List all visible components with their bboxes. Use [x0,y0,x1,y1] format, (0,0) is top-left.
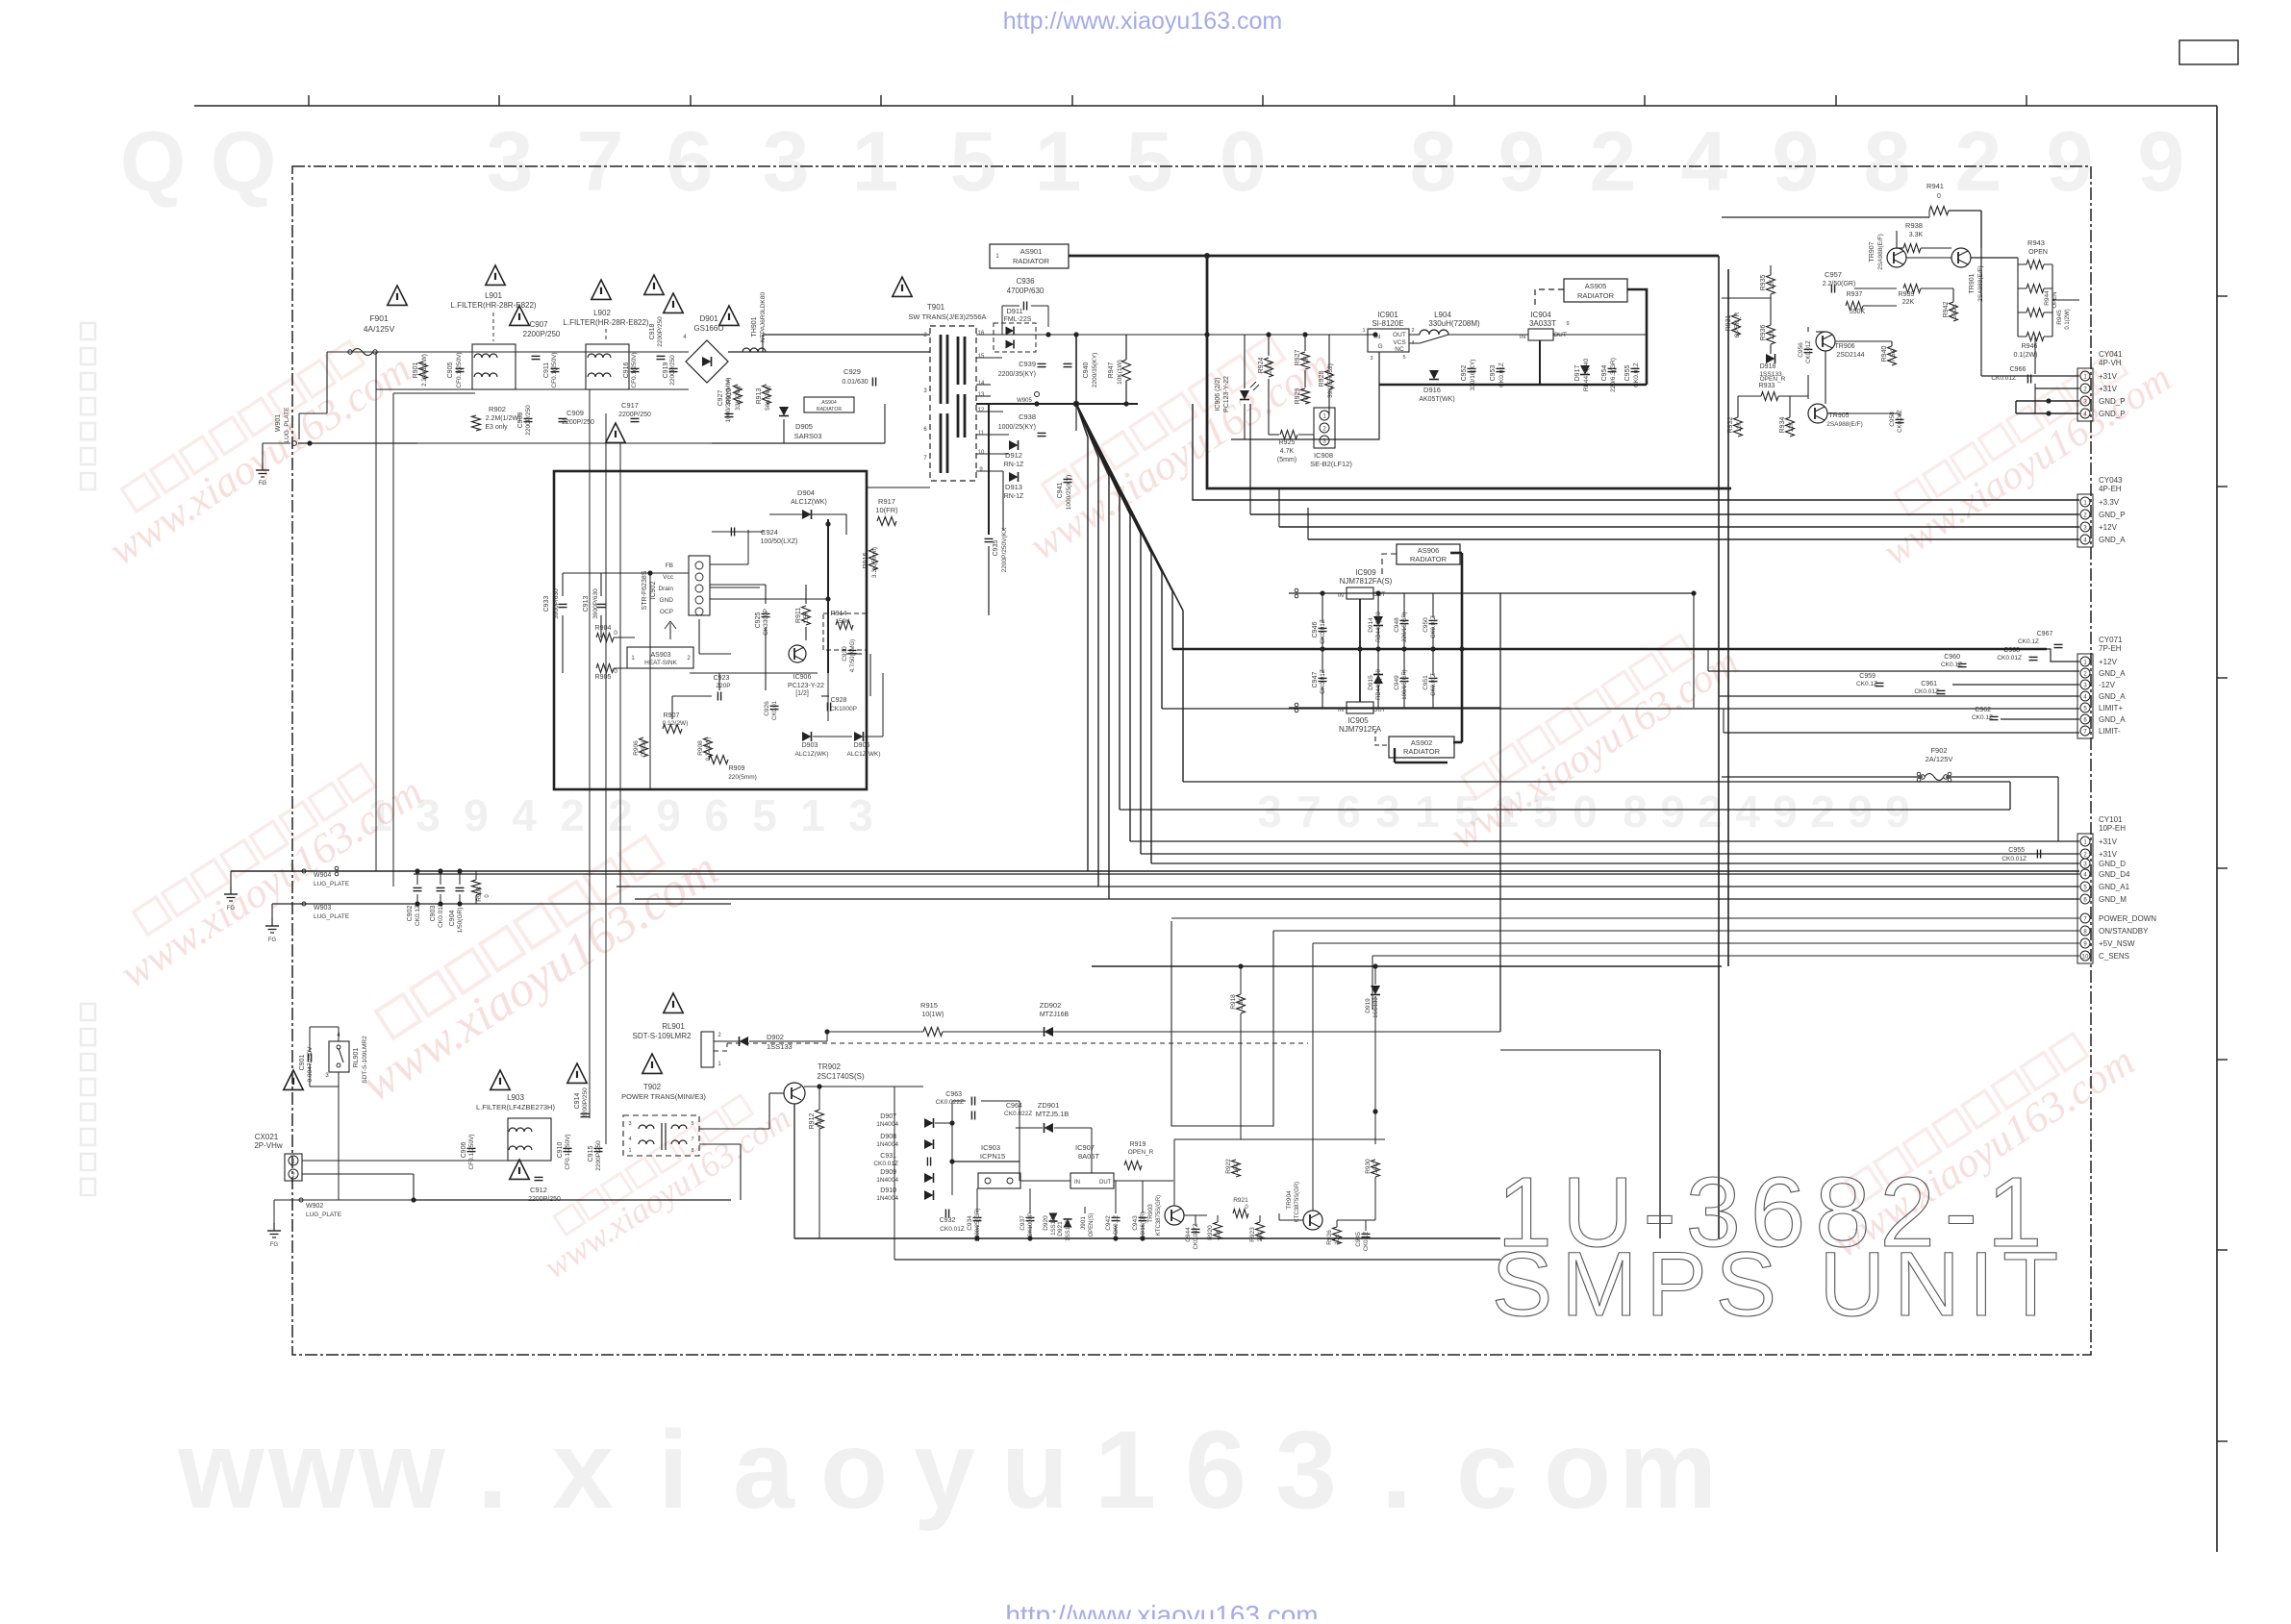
svg-text:330uH(7208M): 330uH(7208M) [1428,319,1480,328]
svg-text:3A033T: 3A033T [1529,319,1556,328]
svg-text:GND_D4: GND_D4 [2099,870,2130,879]
wire output horizontal bus [1120,709,2079,863]
svg-text:R947: R947 [1108,362,1115,379]
transistor Q901 (controller) [789,645,806,662]
svg-text:CK0.1Z: CK0.1Z [1856,681,1877,687]
capacitor C946 [1312,619,1327,644]
svg-text:C902: C902 [407,906,414,922]
resistor R925 [1277,431,1297,464]
inductor L902 line filter [563,309,649,389]
resistor R901 [413,354,428,387]
wire controller internals [563,519,883,789]
svg-text:GND_D: GND_D [2099,860,2126,868]
svg-text:R940: R940 [1881,346,1888,362]
svg-text:10K: 10K [1216,1230,1221,1240]
svg-text:C912: C912 [530,1186,547,1194]
svg-text:OPEN: OPEN [2028,249,2048,256]
svg-text:C955: C955 [2008,847,2025,854]
svg-text:R928: R928 [1319,371,1325,387]
capacitor C964 [971,1103,1032,1120]
svg-text:1N4004: 1N4004 [876,1121,898,1128]
svg-text:POWER TRANS(MINI/E3): POWER TRANS(MINI/E3) [621,1092,706,1101]
transistor TR906 [1816,332,1865,359]
svg-text:ICPN15: ICPN15 [980,1152,1005,1161]
diode D905 SARS03 [779,407,821,440]
svg-text:D919: D919 [1365,998,1372,1013]
wire D904 link [712,514,846,535]
capacitor C901 [299,1046,314,1083]
svg-text:C945: C945 [1355,1232,1362,1247]
svg-text:2200P/250: 2200P/250 [595,1140,602,1171]
capacitor C917 [618,401,651,422]
svg-text:NJM7812FA(S): NJM7812FA(S) [1340,577,1393,586]
svg-text:CK0.1Z: CK0.1Z [1364,1231,1370,1251]
IC903 ICPN15 [978,1143,1020,1188]
svg-text:FG: FG [268,937,277,943]
svg-text:C903: C903 [430,906,437,922]
svg-text:RB441Q-40: RB441Q-40 [1583,358,1590,391]
svg-text:D906: D906 [854,742,870,749]
transistor TR902 [784,1062,865,1104]
svg-text:C908: C908 [517,412,524,429]
resistor R931 [1725,312,1741,337]
svg-text:IC906 (2/2): IC906 (2/2) [1215,377,1221,411]
wire W903 rail [272,904,731,918]
capacitor C960 [1941,654,1967,668]
svg-text:D902: D902 [767,1033,784,1041]
svg-text:IC907: IC907 [1075,1143,1095,1152]
capacitor C926 [764,700,779,720]
wire AC live rail [299,352,689,439]
svg-text:10K: 10K [1373,1163,1379,1174]
svg-text:W903: W903 [314,905,331,912]
svg-text:LIMIT-: LIMIT- [2099,727,2121,736]
svg-text:C936: C936 [1016,277,1035,286]
svg-text:D915: D915 [1368,675,1374,690]
svg-text:4P-VH: 4P-VH [2099,359,2122,367]
diode D919 [1365,986,1380,1018]
warning triangle (L901) [486,265,505,285]
svg-text:CF0.1(250V): CF0.1(250V) [565,1134,571,1169]
svg-text:R911: R911 [795,608,802,623]
jumper J901 [1080,1207,1095,1237]
connector CY043 4P-EH [2077,476,2126,547]
capacitor C955b [2001,847,2040,862]
capacitor C962 [1972,707,1999,721]
wire secondary vertical bus [1088,437,1183,899]
svg-text:SMPS UNIT: SMPS UNIT [1492,1234,2067,1336]
transistor TR904 [1286,1182,1322,1230]
svg-text:220(5mm): 220(5mm) [728,774,757,781]
svg-text:c: c [1456,1409,1518,1532]
svg-text:o: o [820,1409,888,1532]
heatsink AS903 [627,647,693,668]
capacitor C952 [1461,360,1476,391]
svg-text:R912: R912 [809,1113,816,1130]
capacitor C930 [842,639,857,672]
wire relay control [714,1041,1308,1051]
warning triangle (D901) [664,293,683,312]
resistor R914 (dashed box) [823,611,867,650]
svg-text:2SA988(E/F): 2SA988(E/F) [1877,234,1884,270]
capacitor C905 [447,352,465,387]
resistor R942 [1943,302,1958,321]
capacitor C948 [1394,612,1409,641]
svg-text:o: o [1544,1409,1611,1532]
svg-text:1000/25(KY): 1000/25(KY) [998,424,1036,431]
svg-text:8: 8 [1864,113,1911,209]
svg-text:10P-EH: 10P-EH [2099,824,2126,833]
diode D910 [876,1187,933,1202]
resistor R941 [1926,182,1949,215]
resistor R916 [863,547,878,578]
svg-text:R938: R938 [1905,221,1923,230]
warning triangle (C901) [284,1070,303,1089]
svg-text:GND_A: GND_A [2099,692,2126,701]
svg-text:CY101: CY101 [2099,815,2123,824]
svg-text:10(FR): 10(FR) [875,506,898,514]
svg-text:47K: 47K [817,1117,823,1129]
capacitor C924 [731,528,797,546]
svg-text:2200P/250: 2200P/250 [582,1087,589,1118]
svg-text:[1/2]: [1/2] [795,690,809,697]
svg-text:R909: R909 [729,765,745,772]
resistor R926 [1326,1227,1342,1245]
svg-text:R927: R927 [1295,350,1301,366]
wire relay wires [310,971,339,1200]
svg-text:9: 9 [1566,321,1569,327]
svg-text:+31V: +31V [2099,372,2118,381]
svg-text:1: 1 [1035,113,1082,209]
svg-text:4P-EH: 4P-EH [2099,485,2122,493]
svg-text:SDT-S-109LMR2: SDT-S-109LMR2 [633,1032,692,1040]
svg-text:R922: R922 [1225,1159,1232,1174]
svg-text:OPEN: OPEN [642,740,647,757]
capacitor C966 [1991,366,2030,384]
svg-text:LUG_PLATE: LUG_PLATE [306,1212,342,1218]
svg-text:7: 7 [691,1137,693,1142]
svg-text:C952: C952 [1461,365,1468,382]
svg-text:2.2M(1/2W): 2.2M(1/2W) [421,354,428,387]
svg-text:+12V: +12V [2099,523,2118,532]
capacitor C903 [430,887,445,927]
capacitor C949 [1394,669,1409,699]
diode D917 [1574,358,1590,391]
capacitor C912 [528,1177,561,1203]
svg-text:2200P/250: 2200P/250 [525,405,532,436]
node W901 lug plate [275,407,296,446]
svg-text:C932: C932 [940,1217,956,1224]
svg-text:2: 2 [560,790,585,840]
svg-text:.: . [1381,1409,1412,1532]
connector CY041 4P-VH [2077,350,2126,421]
svg-text:R908: R908 [697,740,704,756]
svg-text:LUG_PLATE: LUG_PLATE [314,881,350,887]
svg-text:C940: C940 [1083,362,1090,379]
svg-text:L.FILTER(HR-28R-E822): L.FILTER(HR-28R-E822) [450,301,537,310]
svg-text:D918: D918 [1760,363,1776,370]
svg-text:3: 3 [1370,356,1372,362]
wire standby output rails [794,1101,1500,1260]
svg-text:GND: GND [660,597,674,604]
svg-text:2: 2 [1411,328,1414,334]
svg-text:ALC1Z(WK): ALC1Z(WK) [791,499,827,506]
transformer T901 windings [923,331,985,473]
diode D915 [1368,668,1383,699]
svg-text:R902: R902 [489,405,506,413]
svg-text:1N4004: 1N4004 [876,1195,898,1202]
svg-text:3900P/630: 3900P/630 [592,588,599,619]
diode D907 [876,1113,933,1128]
svg-text:C962: C962 [1975,707,1991,713]
capacitor C914 [574,1087,590,1118]
svg-text:AS902: AS902 [1411,738,1433,747]
resistor R947 [1108,360,1131,385]
svg-text:C917: C917 [621,401,639,410]
optocoupler IC906 (1/2) [788,674,824,697]
svg-text:4.7/50(KMG): 4.7/50(KMG) [850,639,856,672]
svg-text:9: 9 [1773,113,1820,209]
resistor R920 [1207,1222,1222,1240]
wire W901 ground lead [263,440,417,462]
wire ON/STANDBY line [1273,930,2079,932]
fuse F901 [348,313,395,356]
svg-text:C934: C934 [967,1215,973,1231]
svg-text:C946: C946 [1312,622,1319,638]
svg-text:C901: C901 [299,1055,306,1071]
svg-text:C911: C911 [543,362,550,378]
ground FG (W904) [224,887,238,912]
wire TR cluster [1722,211,2079,417]
svg-text:9: 9 [1848,787,1873,837]
svg-text:y: y [914,1409,975,1532]
svg-text:1.8K: 1.8K [1239,998,1245,1010]
wire GND_D4 line [414,873,2079,875]
svg-text:0: 0 [614,668,617,675]
svg-text:ALC1Z(WK): ALC1Z(WK) [846,751,880,758]
svg-text:8: 8 [1623,787,1648,837]
svg-text:CK0.1Z: CK0.1Z [1972,714,1993,721]
relay RL901 contact [325,1033,368,1084]
svg-text:CX021: CX021 [255,1133,279,1141]
svg-text:1SS133: 1SS133 [1373,997,1379,1018]
wire AS905 link [1379,289,1647,385]
svg-text:3: 3 [1375,787,1400,837]
svg-text:D911: D911 [1006,307,1022,315]
capacitor C951 [1422,673,1438,696]
resistor R909 [709,756,757,782]
svg-text:C926: C926 [764,701,770,716]
svg-text:m: m [1619,1409,1717,1532]
resistor R910 [726,385,743,411]
wire regulator rails [1172,553,2047,762]
svg-text:C954: C954 [1601,365,1608,382]
svg-text:SI-8120E: SI-8120E [1372,319,1403,328]
capacitor C935 [985,404,1009,615]
diode D904 [791,488,827,519]
capacitor C934 [967,1209,982,1242]
svg-text:GND_A: GND_A [2099,669,2126,678]
IC902 STR-F6238S [642,556,710,615]
svg-text:OPEN_R: OPEN_R [1734,312,1741,337]
svg-text:C951: C951 [1422,675,1429,690]
svg-text:AS904: AS904 [821,400,837,406]
svg-text:1.5K: 1.5K [803,611,810,624]
wire cap drops [415,868,476,906]
wire CY041 feeds [1981,211,2079,416]
svg-text:11: 11 [978,431,985,437]
svg-text:6: 6 [667,113,714,209]
svg-text:CF0.1(250V): CF0.1(250V) [631,352,638,387]
svg-text:R907: R907 [664,712,680,719]
resistor R918 [1230,994,1246,1013]
inductor L904 [1420,311,1480,335]
svg-text:OPEN(S): OPEN(S) [1089,1212,1095,1237]
svg-text:CF0.1(250V): CF0.1(250V) [456,352,463,387]
svg-text:+12V: +12V [2099,658,2118,666]
svg-text:OUT: OUT [1373,708,1386,713]
svg-text:Drain: Drain [658,586,673,592]
svg-text:C919: C919 [663,362,669,379]
svg-text:3: 3 [848,790,873,840]
node W903 lug plate [302,902,350,920]
resistor R902 [472,405,521,431]
svg-text:C938: C938 [1019,412,1036,421]
wire CY043 feed lines [1193,404,2079,539]
svg-text:CY071: CY071 [2099,636,2123,644]
svg-text:+3.3V: +3.3V [2099,498,2120,507]
wire +5V_NSW line [1313,942,2079,944]
svg-text:ON/STANDBY: ON/STANDBY [2099,927,2149,936]
svg-text:10/16(GR): 10/16(GR) [1141,1212,1146,1238]
IC907 8A05T [1070,1143,1114,1188]
svg-text:C909: C909 [566,409,584,417]
svg-text:0.1(2W): 0.1(2W) [2014,352,2038,359]
svg-text:3: 3 [628,1121,631,1127]
svg-text:8A05T: 8A05T [1078,1152,1100,1161]
wire lower AC bus [417,442,712,444]
svg-text:14: 14 [978,381,985,387]
svg-text:D912: D912 [1005,451,1022,460]
capacitor C928 [827,697,857,712]
svg-text:a: a [733,1409,795,1532]
svg-text:AS903: AS903 [650,652,670,659]
resistor R912 [809,1110,824,1129]
svg-text:5: 5 [752,790,777,840]
svg-text:R918: R918 [1230,994,1237,1010]
svg-text:C949: C949 [1394,675,1400,690]
svg-text:13: 13 [978,392,985,398]
thermistor TH901 [743,292,767,352]
svg-text:T902: T902 [643,1083,662,1091]
wire schematic dash-dot border [292,166,2091,1355]
svg-text:FB: FB [666,562,673,569]
svg-text:0: 0 [614,630,617,637]
wire standby control wires [1174,1139,1385,1238]
ground FG (W902) [267,1223,281,1248]
diode D913 [1004,472,1024,500]
svg-text:IC901: IC901 [1377,311,1398,319]
svg-text:5: 5 [1402,355,1405,361]
svg-text:RB441Q-40: RB441Q-40 [1376,668,1382,699]
resistor R930 [1365,1159,1380,1177]
wire top frame line [194,105,2217,107]
svg-text:KTC3875S(GR): KTC3875S(GR) [1156,1195,1162,1236]
svg-text:3900P/630: 3900P/630 [553,588,560,619]
svg-text:22K: 22K [1902,299,1915,306]
svg-text:W902: W902 [306,1203,323,1210]
resistor R936 [1760,325,1775,344]
svg-text:3.3K(5mm): 3.3K(5mm) [871,547,878,578]
capacitor C950 [1422,615,1438,638]
svg-text:CK0.01Z: CK0.01Z [2001,856,2027,862]
svg-text:GND_P: GND_P [2099,410,2126,418]
svg-text:2.7K: 2.7K [1267,361,1273,374]
resistor R939 [1899,285,1921,307]
svg-text:8: 8 [691,1148,693,1154]
svg-text:w: w [177,1409,264,1532]
resistor R906 [633,737,648,758]
heatsink AS901 [990,244,1069,268]
svg-text:PC123-Y-22: PC123-Y-22 [1223,376,1230,412]
title SMPS UNIT [1492,1234,2067,1336]
transistor TR905 [1808,404,1863,428]
wire top frame tick marks [309,95,2027,106]
warning triangle (C912) [510,1160,529,1179]
svg-text:RN-1Z: RN-1Z [1004,462,1024,468]
svg-text:2200P/250: 2200P/250 [618,412,651,418]
svg-text:C925: C925 [755,612,762,629]
svg-text:R921: R921 [1233,1197,1248,1204]
capacitor C956 [1798,340,1813,363]
warning triangle (L903) [491,1070,510,1089]
svg-text:2K: 2K [1303,355,1310,363]
diode bridge D901 [683,314,730,385]
svg-text:CK0.01Z: CK0.01Z [1431,673,1437,696]
capacitor C968 [1997,647,2037,662]
svg-text:2: 2 [1590,113,1637,209]
svg-text:IC902: IC902 [650,582,657,600]
svg-text:ZD902: ZD902 [1040,1001,1062,1010]
svg-text:D920: D920 [1043,1215,1049,1231]
svg-text:C914: C914 [574,1093,581,1110]
svg-text:1: 1 [1095,1409,1156,1532]
svg-text:CK0.01Z: CK0.01Z [438,903,444,928]
IC904 3A033T [1520,311,1570,340]
svg-text:7P-EH: 7P-EH [2099,644,2122,653]
svg-text:http://www.xiaoyu163.com: http://www.xiaoyu163.com [1003,8,1282,35]
svg-text:C948: C948 [1394,617,1400,633]
resistor R911 [795,606,811,625]
svg-text:C953: C953 [1490,365,1497,382]
svg-text:R920: R920 [1207,1225,1214,1240]
svg-text:11K: 11K [1769,279,1775,290]
svg-text:F901: F901 [369,313,389,323]
svg-text:R915: R915 [920,1001,938,1010]
IC901 SI-8120E [1362,311,1414,362]
svg-text:4: 4 [1735,787,1760,837]
svg-text:RADIATOR: RADIATOR [817,407,843,412]
resistor R928 [1319,363,1334,398]
resistor R932 [1727,417,1743,437]
svg-text:C967: C967 [2037,631,2053,637]
resistor R907 [663,712,689,734]
wire primary return [712,404,885,443]
resistor R934 [1779,417,1795,437]
wire secondary top rail [976,332,1375,337]
svg-text:C943: C943 [1132,1215,1139,1231]
svg-text:TR904: TR904 [1286,1190,1293,1210]
